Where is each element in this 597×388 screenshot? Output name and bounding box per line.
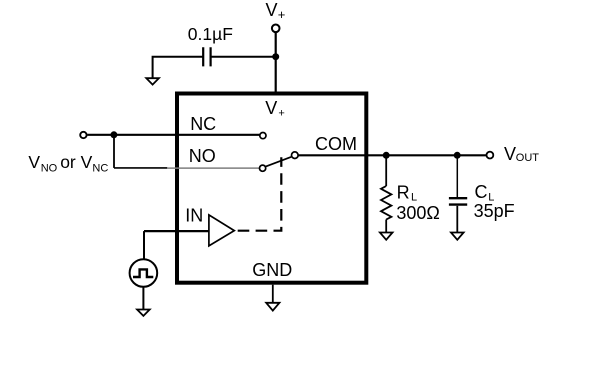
IC box U1 (177, 94, 366, 283)
svg-text:0.1µF: 0.1µF (188, 24, 233, 44)
svg-text:NC: NC (92, 163, 108, 175)
terminal V+ (272, 25, 280, 33)
wire COM to VOUT (298, 154, 486, 156)
svg-text:GND: GND (252, 260, 292, 280)
capacitor CL (449, 198, 467, 204)
svg-text:IN: IN (185, 205, 203, 225)
wire COM to CL (456, 155, 458, 197)
wire CL to ground (456, 206, 458, 233)
switch arm (266, 157, 292, 167)
svg-text:35pF: 35pF (474, 201, 515, 221)
pulse waveform (133, 269, 153, 277)
wire GND pin (272, 285, 274, 303)
svg-text:OUT: OUT (516, 152, 540, 164)
wire RL to ground (385, 220, 387, 233)
wire link down (113, 135, 115, 168)
dashed control line (238, 157, 282, 230)
svg-text:V: V (28, 152, 40, 172)
svg-text:+: + (278, 7, 286, 22)
junction dot RL (383, 152, 390, 159)
wire NO line black part (114, 167, 167, 169)
ground (pulse source) (137, 310, 150, 316)
capacitor C1 0.1uF (203, 47, 210, 66)
svg-text:L: L (411, 192, 417, 204)
resistor RL (381, 186, 391, 220)
junction dot NC (110, 131, 117, 138)
buffer driver (209, 215, 234, 246)
pin NC circle (260, 133, 266, 139)
wire cap to V+ (211, 56, 276, 58)
svg-text:NC: NC (190, 114, 216, 134)
wire NC line (87, 134, 259, 136)
svg-text:V: V (266, 0, 278, 20)
junction dot CL (454, 152, 461, 159)
svg-text:+: + (278, 108, 284, 120)
ground (RL) (380, 233, 393, 240)
svg-text:R: R (397, 183, 410, 203)
svg-text:300Ω: 300Ω (396, 203, 440, 223)
pulse source V1 (130, 259, 158, 287)
terminal NC input (80, 132, 86, 138)
wire IN line (144, 230, 209, 232)
switch pivot circle COM (292, 152, 299, 159)
svg-text:NO: NO (41, 163, 58, 175)
wire pulse source to IN (143, 231, 145, 259)
svg-text:or V: or V (60, 152, 92, 172)
wire V+ to box (275, 32, 277, 95)
svg-text:V: V (265, 98, 277, 118)
terminal VOUT (487, 152, 494, 159)
ground (GND pin) (266, 303, 279, 311)
wire cap to ground (153, 57, 204, 79)
junction dot V+/cap (272, 53, 279, 60)
ground (cap) (146, 78, 159, 84)
ground (CL) (451, 233, 464, 240)
svg-text:V: V (504, 144, 516, 164)
svg-text:NO: NO (189, 146, 216, 166)
wire pulse source to ground (142, 287, 144, 310)
svg-text:C: C (475, 182, 488, 202)
wire NO line gray part (167, 167, 259, 169)
svg-text:COM: COM (315, 134, 357, 154)
pin NO circle (260, 165, 266, 171)
wire COM to RL (385, 155, 387, 186)
